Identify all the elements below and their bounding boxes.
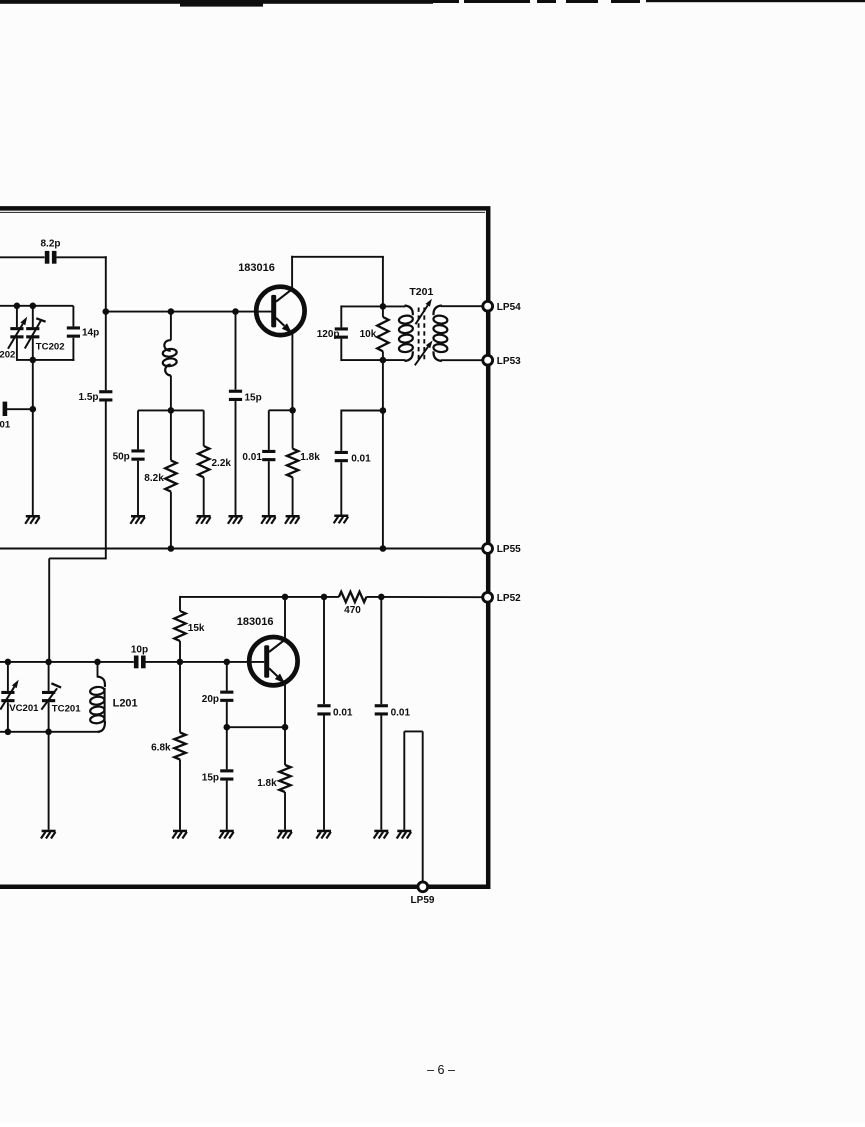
wire: [284, 792, 286, 830]
wire: [170, 375, 172, 410]
resistor 1.8k (upper): [287, 410, 320, 477]
capacitor 50p: [113, 410, 145, 462]
transistor Q1 183016: [238, 262, 304, 335]
resistor 10k: [360, 306, 389, 351]
resistor 470: [339, 592, 367, 616]
capacitor 15p: [229, 312, 262, 404]
capacitor 0.01 (T201 branch): [335, 410, 383, 465]
junction: [321, 594, 328, 601]
junction: [30, 357, 37, 364]
svg-text:15k: 15k: [188, 623, 205, 634]
wire: [179, 641, 181, 662]
transistor Q2 183016: [237, 616, 298, 686]
svg-text:15p: 15p: [245, 392, 262, 403]
terminal LP54: [483, 301, 521, 313]
capacitor 14p: [67, 326, 99, 338]
svg-text:120p: 120p: [317, 329, 340, 340]
capacitor 8.2p: [40, 239, 60, 264]
junction: [282, 594, 289, 601]
T201 tuning arrow lower: [415, 340, 433, 365]
svg-text:LP53: LP53: [497, 356, 521, 367]
wire: [170, 492, 172, 549]
junction: [94, 659, 101, 666]
junction: [5, 659, 12, 666]
wire: [105, 402, 107, 560]
terminal LP52: [483, 592, 521, 604]
ground: [277, 830, 292, 839]
junction: [224, 724, 231, 731]
wire: [180, 596, 339, 598]
wire: [106, 311, 272, 313]
wire: [57, 256, 107, 258]
ground: [172, 830, 187, 839]
wire: [291, 256, 384, 258]
svg-text:LP54: LP54: [497, 302, 521, 313]
junction: [224, 659, 231, 666]
junction: [177, 659, 184, 666]
wire: [226, 702, 228, 727]
svg-text:20p: 20p: [202, 694, 219, 705]
junction: [168, 308, 175, 315]
svg-text:TC202: TC202: [36, 342, 65, 353]
terminal LP55: [483, 544, 521, 556]
wire: [403, 731, 405, 829]
svg-text:0.01: 0.01: [391, 707, 411, 718]
wire: [269, 409, 293, 411]
wire: [0, 256, 45, 258]
wire: [291, 334, 293, 411]
ground: [316, 830, 331, 839]
junction: [380, 357, 387, 364]
junction: [380, 303, 387, 310]
wire: [284, 597, 286, 639]
junction: [30, 303, 37, 310]
svg-text:– 6 –: – 6 –: [427, 1063, 455, 1077]
resistor 6.8k: [151, 662, 186, 760]
svg-text:202: 202: [0, 350, 15, 361]
component stub 01: [0, 402, 33, 431]
trimmer capacitor TC201: [41, 662, 81, 732]
wire: [422, 731, 424, 882]
ground: [41, 830, 56, 839]
wire: [203, 477, 205, 515]
junction: [378, 594, 385, 601]
wire: [145, 661, 264, 663]
scan-edge strip top: [0, 0, 865, 7]
wire: [292, 477, 294, 515]
wire: [32, 360, 34, 515]
svg-text:T201: T201: [409, 286, 433, 298]
capacitor 120p: [317, 305, 383, 361]
variable capacitor VC202: [0, 306, 27, 361]
junction: [282, 724, 289, 731]
wire: [138, 409, 204, 411]
svg-text:0.01: 0.01: [333, 707, 353, 718]
wire: [382, 360, 384, 548]
trimmer capacitor TC202: [25, 306, 65, 360]
wire: [0, 731, 100, 733]
svg-text:1.5p: 1.5p: [78, 392, 98, 403]
svg-text:6.8k: 6.8k: [151, 742, 171, 753]
ground: [130, 515, 145, 524]
wire: [340, 462, 342, 514]
resistor 15k: [174, 596, 205, 641]
ground: [196, 515, 211, 524]
svg-text:183016: 183016: [237, 616, 274, 628]
ground: [374, 830, 389, 839]
svg-text:LP59: LP59: [411, 895, 435, 906]
svg-text:10p: 10p: [131, 644, 148, 655]
wire: [323, 716, 325, 830]
wire: [72, 338, 74, 361]
wire: [49, 557, 106, 559]
ground: [285, 515, 300, 524]
svg-text:8.2p: 8.2p: [40, 239, 60, 250]
wire: [235, 401, 237, 515]
capacitor 0.01 (second): [375, 597, 411, 718]
T201 core: [419, 308, 425, 360]
svg-text:183016: 183016: [238, 262, 275, 274]
wire: [48, 558, 50, 662]
wire: [404, 730, 422, 732]
svg-text:50p: 50p: [113, 452, 130, 463]
junction: [5, 729, 12, 736]
wire: [105, 256, 107, 390]
ground: [228, 515, 243, 524]
inductor L201: [90, 662, 138, 732]
capacitor 0.01 (upper emitter): [242, 410, 275, 463]
svg-text:LP52: LP52: [497, 593, 521, 604]
junction: [45, 729, 52, 736]
resistor 8.2k: [144, 410, 176, 491]
svg-text:01: 01: [0, 419, 11, 430]
wire: [227, 726, 285, 728]
svg-text:8.2k: 8.2k: [144, 473, 164, 484]
wire: [380, 716, 382, 830]
wire: [0, 305, 73, 307]
terminal LP59: [411, 882, 435, 906]
svg-text:0.01: 0.01: [351, 453, 371, 464]
inductor (osc coil): [162, 340, 177, 375]
wire: [382, 351, 384, 360]
ground: [219, 830, 234, 839]
svg-text:470: 470: [344, 605, 361, 616]
junction: [380, 545, 387, 552]
ground: [261, 515, 276, 524]
junction: [232, 308, 239, 315]
junction: [168, 545, 175, 552]
capacitor 20p: [202, 662, 234, 705]
capacitor 0.01 (first): [317, 597, 353, 718]
wire: [366, 596, 481, 598]
capacitor 1.5p: [78, 390, 112, 403]
T201 secondary winding: [433, 306, 482, 362]
wire: [17, 359, 75, 361]
T201 tuning arrow upper: [416, 299, 432, 324]
svg-text:10k: 10k: [360, 329, 377, 340]
terminal LP53: [483, 355, 521, 367]
svg-text:TC201: TC201: [52, 703, 81, 714]
wire: [0, 548, 482, 550]
resistor 2.2k: [198, 410, 231, 477]
resistor 1.8k (lower): [257, 727, 290, 792]
wire: [137, 461, 139, 515]
svg-text:LP55: LP55: [497, 544, 521, 555]
wire: [284, 684, 286, 727]
ground: [25, 515, 40, 524]
svg-text:15p: 15p: [202, 772, 219, 783]
svg-text:1.8k: 1.8k: [257, 778, 277, 789]
junction: [14, 303, 21, 310]
wire: [48, 732, 50, 830]
schematic border box: [0, 208, 488, 886]
junction: [103, 308, 110, 315]
svg-text:2.2k: 2.2k: [212, 458, 232, 469]
ground: [334, 515, 349, 524]
wire: [268, 461, 270, 515]
svg-text:VC201: VC201: [9, 703, 39, 714]
border inner scan line: [0, 211, 485, 213]
wire: [72, 306, 74, 327]
wire: [291, 256, 293, 289]
junction: [380, 407, 387, 414]
variable capacitor VC201: [0, 662, 39, 732]
wire: [179, 760, 181, 830]
junction: [289, 407, 296, 414]
capacitor 15p (lower): [202, 727, 234, 783]
svg-text:0.01: 0.01: [242, 452, 262, 463]
junction: [30, 406, 37, 413]
svg-text:14p: 14p: [82, 328, 99, 339]
wire: [382, 257, 384, 307]
T201 primary winding: [383, 306, 413, 362]
wire: [226, 781, 228, 830]
junction: [45, 659, 52, 666]
junction: [168, 407, 175, 414]
wire: [170, 312, 172, 341]
wire: [0, 661, 134, 663]
svg-text:L201: L201: [113, 697, 138, 709]
ground: [397, 830, 412, 839]
svg-text:1.8k: 1.8k: [300, 452, 320, 463]
capacitor 10p: [131, 644, 148, 668]
